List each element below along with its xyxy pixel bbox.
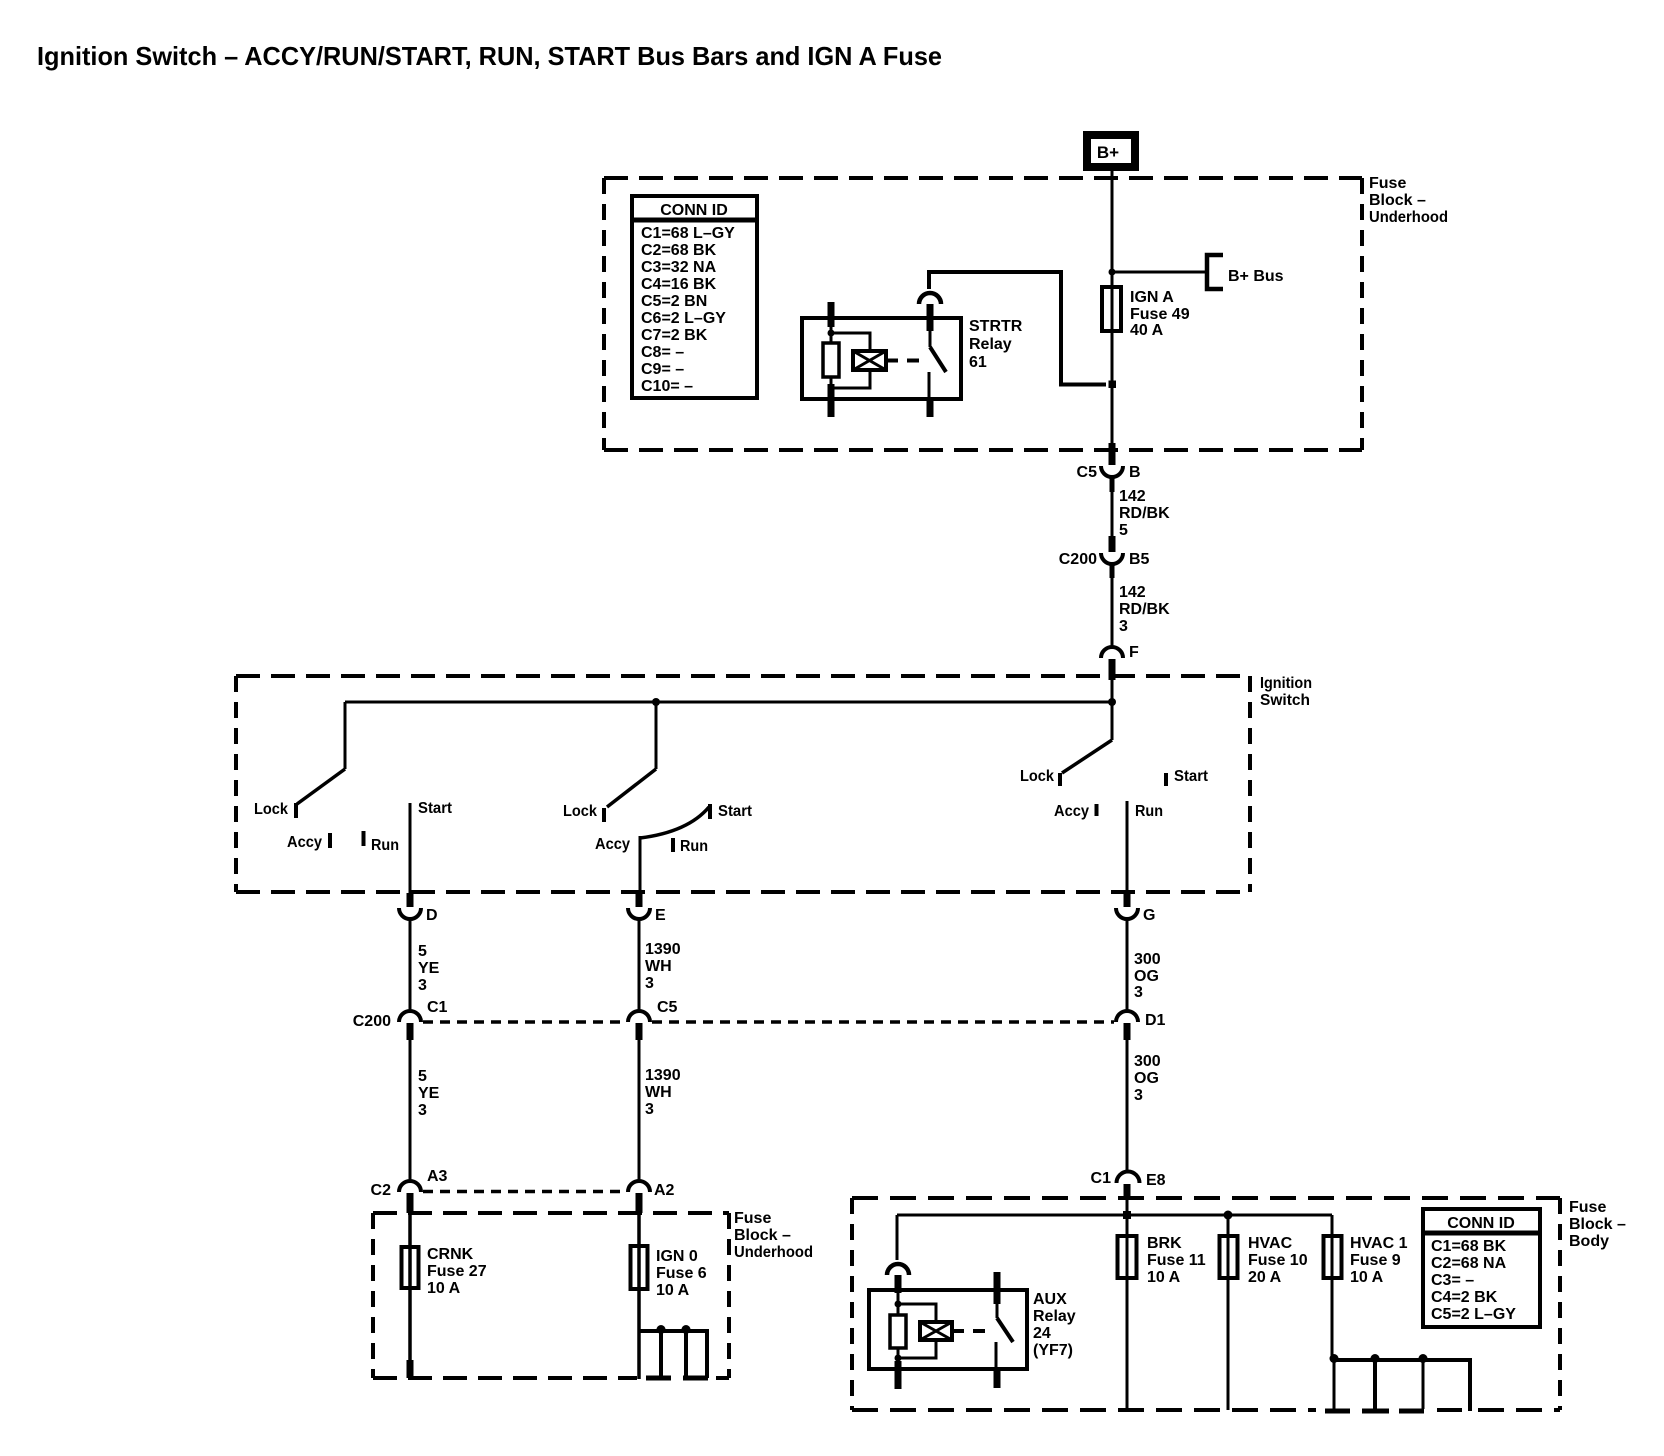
node junction square	[1109, 381, 1117, 389]
node bus junction left	[652, 698, 660, 706]
svg-text:CONN ID: CONN ID	[660, 202, 728, 219]
wire IGN 0 down	[637, 1291, 641, 1379]
svg-text:C1=68 L–GY: C1=68 L–GY	[641, 225, 735, 242]
relay U61 STRTR	[802, 293, 1023, 417]
svg-text:C7=2 BK: C7=2 BK	[641, 327, 708, 344]
B+ power symbol	[1087, 135, 1135, 167]
svg-text:IGN 0: IGN 0	[656, 1248, 698, 1265]
svg-text:C6=2 L–GY: C6=2 L–GY	[641, 310, 726, 327]
svg-text:Block –: Block –	[734, 1227, 791, 1244]
svg-text:C5: C5	[1077, 464, 1098, 481]
svg-text:A2: A2	[654, 1182, 675, 1199]
svg-text:3: 3	[1134, 1087, 1143, 1104]
node E8 junction	[1123, 1211, 1131, 1219]
svg-text:C8= –: C8= –	[641, 344, 684, 361]
svg-text:Relay: Relay	[969, 336, 1012, 353]
switch 3 RUN	[1020, 702, 1209, 893]
svg-text:C1: C1	[1091, 1170, 1112, 1187]
fuse BRK 11	[1118, 1215, 1206, 1286]
svg-text:B+ Bus: B+ Bus	[1228, 268, 1284, 285]
wire 1390 WH 3 lower	[639, 1040, 681, 1183]
fuse block body label	[1569, 1199, 1626, 1250]
connector D	[399, 893, 438, 924]
svg-text:Accy: Accy	[595, 836, 630, 853]
svg-text:Start: Start	[418, 800, 453, 817]
svg-text:D: D	[426, 907, 438, 924]
node HVAC junction	[1224, 1211, 1233, 1220]
svg-text:Body: Body	[1569, 1233, 1609, 1250]
wire 1390 WH 3 upper	[639, 919, 681, 1011]
svg-text:C10= –: C10= –	[641, 378, 693, 395]
svg-text:Fuse: Fuse	[1569, 1199, 1606, 1216]
wire 300 OG 3 lower	[1127, 1040, 1161, 1173]
svg-text:20 A: 20 A	[1248, 1269, 1282, 1286]
fuse block underhood dashed box	[604, 178, 1362, 450]
switch 1 START	[254, 702, 453, 893]
connector C200 pin B5	[1059, 536, 1150, 568]
svg-text:300: 300	[1134, 951, 1161, 968]
svg-text:C4=16 BK: C4=16 BK	[641, 276, 717, 293]
inline connector C200 row	[353, 999, 1166, 1040]
svg-text:Fuse 11: Fuse 11	[1147, 1252, 1206, 1269]
svg-text:Underhood: Underhood	[734, 1244, 813, 1261]
fuse CRNK 27	[402, 1213, 487, 1297]
svg-text:3: 3	[418, 977, 427, 994]
svg-text:F: F	[1129, 644, 1139, 661]
svg-text:C3=32 NA: C3=32 NA	[641, 259, 717, 276]
relay AUX 24	[869, 1264, 1076, 1389]
svg-text:Block –: Block –	[1569, 1216, 1626, 1233]
fuse HVAC 10	[1220, 1215, 1308, 1286]
svg-text:C5: C5	[657, 999, 678, 1016]
svg-text:Run: Run	[371, 837, 399, 854]
node bus junction right	[1108, 698, 1116, 706]
svg-text:C1=68 BK: C1=68 BK	[1431, 1238, 1507, 1255]
svg-text:Relay: Relay	[1033, 1308, 1076, 1325]
svg-text:Block –: Block –	[1369, 192, 1426, 209]
connector G	[1116, 893, 1155, 924]
svg-text:C1: C1	[427, 999, 448, 1016]
svg-text:Switch: Switch	[1260, 692, 1310, 709]
svg-text:1390: 1390	[645, 941, 681, 958]
svg-text:3: 3	[1134, 984, 1143, 1001]
wire body feed line	[897, 1214, 1332, 1217]
wire 142 RD/BK 3	[1112, 564, 1170, 647]
wire to AUX relay	[896, 1215, 899, 1260]
svg-text:3: 3	[645, 975, 654, 992]
connector E	[628, 893, 666, 924]
svg-text:Fuse 27: Fuse 27	[427, 1263, 487, 1280]
svg-text:10 A: 10 A	[1350, 1269, 1384, 1286]
svg-text:HVAC 1: HVAC 1	[1350, 1235, 1408, 1252]
svg-text:40 A: 40 A	[1130, 322, 1164, 339]
bus bar RUN body	[1325, 1354, 1470, 1411]
svg-text:10 A: 10 A	[427, 1280, 461, 1297]
fuse IGN 0 6	[631, 1213, 707, 1299]
svg-text:3: 3	[1119, 618, 1128, 635]
svg-text:WH: WH	[645, 958, 672, 975]
svg-text:Fuse 10: Fuse 10	[1248, 1252, 1308, 1269]
svg-text:C9= –: C9= –	[641, 361, 684, 378]
wire fuse to relay junction	[1111, 332, 1114, 443]
svg-text:WH: WH	[645, 1084, 672, 1101]
svg-text:RD/BK: RD/BK	[1119, 505, 1170, 522]
svg-text:61: 61	[969, 354, 987, 371]
svg-text:C3= –: C3= –	[1431, 1272, 1474, 1289]
svg-text:5: 5	[418, 1068, 427, 1085]
fuse block body dashed box	[852, 1198, 1560, 1410]
svg-text:Run: Run	[680, 838, 708, 855]
svg-text:C2=68 BK: C2=68 BK	[641, 242, 717, 259]
svg-text:(YF7): (YF7)	[1033, 1342, 1073, 1359]
svg-text:CRNK: CRNK	[427, 1246, 474, 1263]
svg-text:24: 24	[1033, 1325, 1051, 1342]
svg-text:BRK: BRK	[1147, 1235, 1182, 1252]
svg-text:RD/BK: RD/BK	[1119, 601, 1170, 618]
svg-text:5: 5	[1119, 522, 1128, 539]
fuse block underhood label	[1369, 175, 1448, 226]
svg-text:3: 3	[418, 1102, 427, 1119]
wire HVAC 1 down	[1331, 1280, 1334, 1360]
svg-text:Ignition Switch – ACCY/RUN/STA: Ignition Switch – ACCY/RUN/START, RUN, S…	[37, 41, 942, 71]
svg-text:Lock: Lock	[563, 803, 597, 820]
svg-text:CONN ID: CONN ID	[1447, 1215, 1515, 1232]
svg-text:Fuse 9: Fuse 9	[1350, 1252, 1401, 1269]
svg-text:Ignition: Ignition	[1260, 675, 1312, 692]
bus bar START underhood	[639, 1325, 709, 1378]
svg-text:142: 142	[1119, 488, 1146, 505]
node B+ bus branch	[1109, 269, 1116, 276]
svg-text:Fuse 49: Fuse 49	[1130, 306, 1190, 323]
svg-text:B5: B5	[1129, 551, 1150, 568]
svg-text:Start: Start	[718, 803, 753, 820]
wire to B+ bus	[1112, 271, 1205, 274]
CONN ID table body	[1423, 1209, 1540, 1327]
CONN ID table underhood	[632, 196, 757, 398]
wire CRNK to ground bar	[408, 1290, 412, 1362]
svg-text:C2: C2	[371, 1182, 392, 1199]
fuse block underhood 2 label	[734, 1210, 813, 1261]
svg-text:Underhood: Underhood	[1369, 209, 1448, 226]
ignition switch label	[1260, 675, 1312, 709]
svg-text:B: B	[1129, 464, 1141, 481]
svg-text:C200: C200	[1059, 551, 1097, 568]
svg-text:OG: OG	[1134, 1070, 1159, 1087]
svg-text:C5=2 L–GY: C5=2 L–GY	[1431, 1306, 1516, 1323]
fuse block underhood 2 dashed box	[373, 1213, 729, 1378]
B+ bus bar symbol	[1207, 255, 1223, 289]
svg-text:Fuse: Fuse	[734, 1210, 771, 1227]
svg-text:3: 3	[645, 1101, 654, 1118]
wire B+ down to IGN A fuse	[1111, 171, 1114, 285]
svg-text:IGN A: IGN A	[1130, 289, 1174, 306]
svg-text:Fuse 6: Fuse 6	[656, 1265, 707, 1282]
svg-text:A3: A3	[427, 1168, 448, 1185]
wire ignition bus	[345, 701, 1112, 704]
wire CRNK end bar	[407, 1360, 414, 1378]
wire 5 YE 3 lower	[410, 1040, 440, 1183]
svg-text:HVAC: HVAC	[1248, 1235, 1293, 1252]
svg-text:Run: Run	[1135, 803, 1163, 820]
svg-text:E8: E8	[1146, 1172, 1166, 1189]
svg-text:E: E	[655, 907, 666, 924]
svg-text:AUX: AUX	[1033, 1291, 1067, 1308]
svg-text:5: 5	[418, 943, 427, 960]
svg-text:Accy: Accy	[1054, 803, 1089, 820]
svg-text:142: 142	[1119, 584, 1146, 601]
wire 300 OG 3 upper	[1127, 919, 1161, 1011]
svg-text:Fuse: Fuse	[1369, 175, 1406, 192]
svg-text:1390: 1390	[645, 1067, 681, 1084]
svg-text:YE: YE	[418, 1085, 440, 1102]
fuse IGN A 49	[1102, 285, 1190, 339]
svg-text:C200: C200	[353, 1013, 391, 1030]
connector C1 E8	[1091, 1170, 1166, 1215]
svg-text:OG: OG	[1134, 968, 1159, 985]
connector C5 pin B	[1077, 443, 1141, 481]
svg-text:Lock: Lock	[254, 801, 288, 818]
connector F	[1101, 644, 1139, 702]
svg-text:10 A: 10 A	[656, 1282, 690, 1299]
switch 2 ACCY/RUN/START	[563, 702, 753, 893]
svg-text:C2=68 NA: C2=68 NA	[1431, 1255, 1507, 1272]
wire relay to junction node	[929, 272, 1106, 385]
ignition switch dashed box	[236, 676, 1250, 892]
svg-text:C4=2 BK: C4=2 BK	[1431, 1289, 1498, 1306]
wire HVAC down	[1227, 1280, 1230, 1410]
inline connector C2 A3 A2 row	[371, 1168, 675, 1213]
fuse HVAC 1 9	[1324, 1215, 1408, 1286]
svg-text:B+: B+	[1097, 143, 1119, 162]
svg-text:Lock: Lock	[1020, 768, 1054, 785]
svg-text:300: 300	[1134, 1053, 1161, 1070]
svg-text:Accy: Accy	[287, 834, 322, 851]
wire 142 RD/BK 5	[1112, 477, 1170, 539]
wire 5 YE 3 upper	[410, 919, 440, 1011]
svg-text:C5=2 BN: C5=2 BN	[641, 293, 707, 310]
svg-text:Start: Start	[1174, 768, 1209, 785]
svg-text:YE: YE	[418, 960, 440, 977]
svg-text:G: G	[1143, 907, 1155, 924]
svg-text:10 A: 10 A	[1147, 1269, 1181, 1286]
wire BRK down	[1126, 1280, 1129, 1410]
svg-text:STRTR: STRTR	[969, 318, 1023, 335]
svg-text:D1: D1	[1145, 1012, 1166, 1029]
